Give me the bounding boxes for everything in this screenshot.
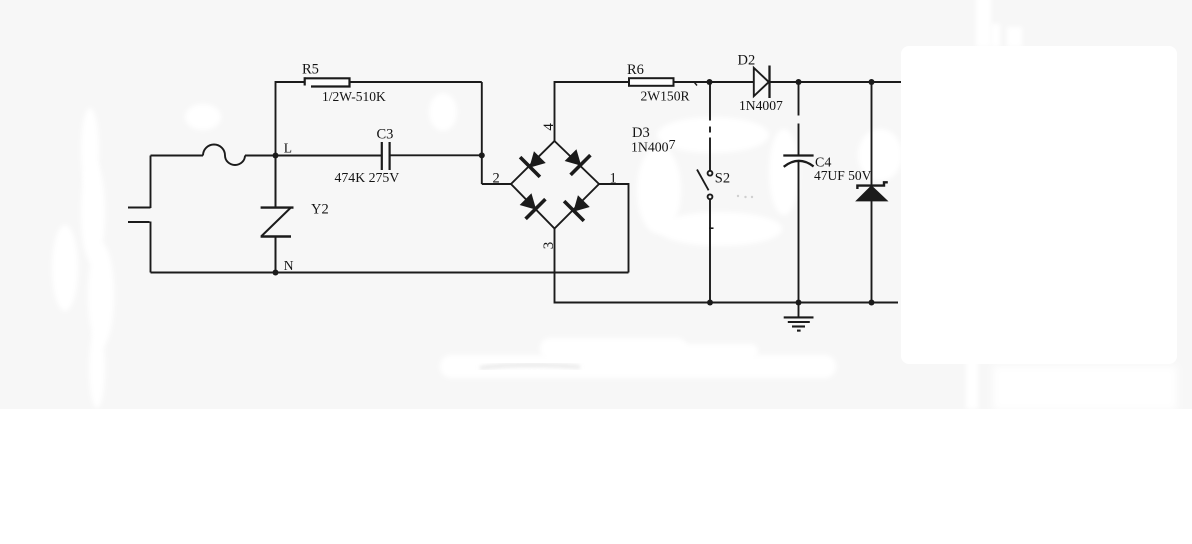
wire — [555, 82, 630, 141]
svg-text:Y2: Y2 — [311, 202, 329, 218]
svg-text:1N4007: 1N4007 — [739, 98, 783, 113]
resistor R6 — [629, 78, 674, 86]
svg-text:1N4007: 1N4007 — [631, 137, 676, 155]
wire — [150, 222, 152, 273]
diode D2 — [754, 66, 770, 99]
svg-text:1: 1 — [610, 171, 617, 187]
fuse F1 — [203, 145, 245, 166]
svg-text:1/2W-510K: 1/2W-510K — [322, 89, 386, 104]
node — [707, 300, 713, 306]
node — [796, 79, 802, 85]
capacitor C3 — [382, 142, 390, 170]
bridge rectifier D3 diamond — [511, 141, 599, 229]
wire — [709, 199, 711, 302]
node — [707, 79, 713, 85]
svg-text:S2: S2 — [715, 170, 730, 186]
node — [869, 79, 875, 85]
wire — [350, 81, 482, 83]
scan background — [0, 0, 1192, 409]
diode bridge bottom-left — [521, 194, 546, 219]
tick mark — [695, 83, 698, 86]
wire — [674, 81, 754, 83]
svg-text:2: 2 — [493, 170, 500, 186]
wire — [150, 156, 152, 209]
node L — [273, 153, 279, 159]
tick mark — [709, 227, 714, 229]
svg-text:D3: D3 — [632, 125, 650, 141]
wire — [798, 82, 800, 155]
wire — [245, 155, 382, 157]
capacitor C4 — [783, 156, 813, 167]
svg-text:R6: R6 — [627, 62, 644, 78]
svg-text:L: L — [284, 141, 292, 156]
svg-text:3: 3 — [541, 242, 557, 250]
plug prong top — [128, 207, 151, 209]
wire — [276, 82, 305, 156]
resistor R5 — [306, 78, 350, 86]
svg-text:47UF 50V: 47UF 50V — [814, 168, 872, 183]
node — [869, 300, 875, 306]
svg-text:D2: D2 — [738, 53, 756, 69]
diode bridge top-right — [566, 150, 591, 175]
diode bridge top-left — [520, 152, 545, 177]
svg-text:474K 275V: 474K 275V — [335, 170, 400, 185]
node — [796, 300, 802, 306]
wire — [389, 154, 481, 156]
varistor Y2 — [262, 156, 291, 273]
node — [479, 152, 485, 158]
plug prong bottom — [128, 221, 150, 223]
wire — [555, 229, 899, 303]
wire — [481, 82, 483, 184]
svg-text:4: 4 — [541, 123, 557, 131]
wire — [709, 82, 711, 171]
svg-text:2W150R: 2W150R — [641, 89, 691, 104]
zener diode — [857, 82, 888, 303]
ground — [784, 303, 814, 331]
svg-text:R5: R5 — [302, 62, 319, 78]
diode bridge bottom-right — [564, 196, 589, 221]
node N — [273, 270, 279, 276]
wire — [599, 184, 629, 273]
switch S2 — [697, 170, 712, 200]
wire — [798, 161, 800, 303]
wire — [770, 81, 903, 83]
wire — [151, 155, 204, 157]
svg-text:N: N — [284, 258, 294, 273]
svg-text:C3: C3 — [377, 127, 394, 143]
white paper panel right — [901, 46, 1177, 364]
wire — [151, 272, 629, 274]
wire — [482, 183, 511, 185]
